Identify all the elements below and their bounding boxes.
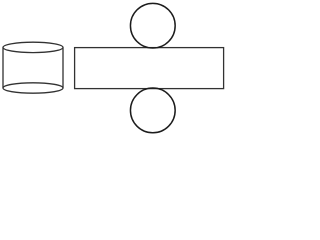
cylinder top ellipse bbox=[3, 42, 63, 52]
cylinder left side wire bbox=[2, 47, 4, 88]
net rectangle bbox=[75, 48, 224, 89]
cylinder bottom ellipse bbox=[3, 83, 63, 93]
net bottom circle bbox=[130, 88, 175, 133]
cylinder right side wire bbox=[62, 47, 64, 88]
net top circle bbox=[130, 3, 175, 48]
